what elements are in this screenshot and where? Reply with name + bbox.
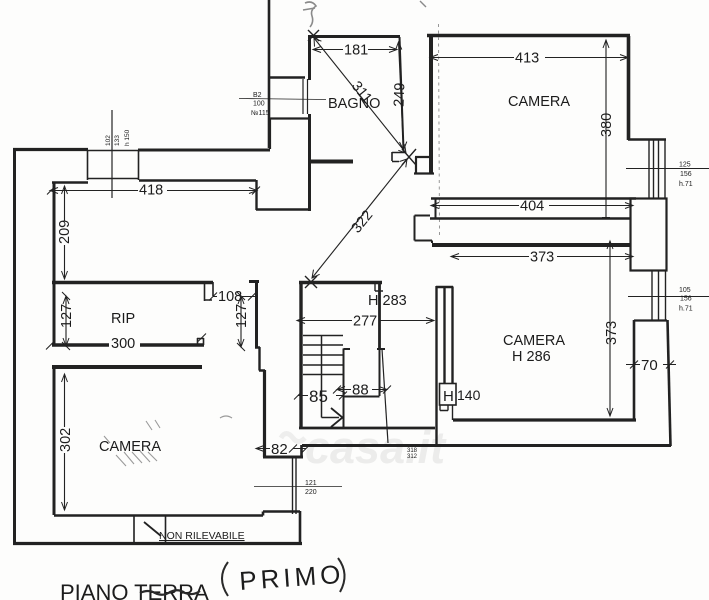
wall right lower inner [633,320,636,420]
wall 373 [432,243,630,247]
strip diagonal [144,522,161,536]
wall stair right [378,283,381,349]
svg-text:B2: B2 [253,92,262,99]
wall 404 bottom line [430,217,630,220]
svg-text:277: 277 [353,314,377,330]
svg-text:h 150: h 150 [124,129,131,146]
H140 box [440,384,457,406]
svg-text:156: 156 [680,171,692,178]
svg-text:№115: №115 [251,110,270,117]
svg-text:127: 127 [59,304,75,328]
svg-text:102: 102 [105,135,112,146]
stair center line and arrow [322,335,340,418]
svg-text:CAMERA: CAMERA [503,333,565,349]
stairwell U [344,349,386,428]
wall mid piece x256 [249,282,259,348]
jamb rip top right [204,282,213,301]
notch stair top-right [375,283,383,291]
dim 181 [313,49,397,51]
pencil mark left of 82 [220,416,232,418]
dim window 102 133 h150 [111,110,113,198]
dim 70 [626,364,676,366]
wall camera-ne right [627,36,631,140]
svg-text:127: 127 [234,304,250,328]
thin wall line right of stairwell [382,349,388,443]
window ne right [649,140,665,198]
svg-text:125: 125 [679,162,691,169]
svg-text:133: 133 [114,135,121,146]
svg-text:H 286: H 286 [512,349,551,365]
wall step to 82 [255,347,265,371]
dim 88 [337,389,387,391]
wall outer left [13,148,16,544]
svg-text:418: 418 [139,183,163,199]
wall bagno left lower [308,114,311,211]
wall stair top [299,281,382,284]
wall stair bottom [299,427,435,430]
wall camera-ne left [429,36,433,174]
svg-text:121: 121 [305,480,317,487]
wall corridor top [13,148,88,151]
wall corridor top right part [138,149,270,152]
svg-text:156: 156 [680,296,692,303]
dim 380 [605,40,607,218]
svg-text:220: 220 [305,489,317,496]
wall hook left of 404 [415,216,433,244]
wall inner vertical x54 [53,182,56,282]
svg-text:373: 373 [604,321,620,345]
pencil squiggle top [305,2,316,27]
wall bagno bottom [310,160,353,164]
dim 85 [298,395,343,397]
svg-text:209: 209 [57,220,73,244]
strip divider 1 [133,516,135,543]
wall rip top [52,281,213,284]
svg-text:312: 312 [407,454,418,460]
dim 209 [64,186,66,279]
dim 249 [399,42,404,150]
wall shaft bottom [268,76,305,79]
wall rip left [53,282,56,345]
wall stub above corridor [270,118,309,149]
dim 302 [64,374,66,510]
dim 413 [430,57,628,59]
svg-text:302: 302 [58,428,74,452]
svg-text:88: 88 [352,382,369,399]
label 121 220 [254,486,342,488]
svg-text:413: 413 [515,51,539,67]
svg-text:NON RILEVABILE: NON RILEVABILE [159,530,245,542]
wall bagno right [400,37,404,150]
svg-text:h.71: h.71 [679,181,693,188]
wall right lower top [634,319,667,321]
dim 82 [256,448,306,450]
svg-text:380: 380 [599,113,615,137]
dim 322 diagonal [312,159,407,278]
dashed guide line [439,24,440,235]
pillar camera-h286 left wall [436,286,453,444]
svg-text:105: 105 [679,287,691,294]
wall step to window ne [628,138,666,140]
sill leader ne [626,168,709,170]
svg-text:82: 82 [271,441,288,458]
svg-text:100: 100 [253,101,265,108]
wall stair left [299,282,302,429]
jamb rip bottom right [197,338,204,345]
wall 82 vertical [263,370,266,457]
wall 82 right up [300,445,303,458]
door B2 frame [303,79,308,114]
sill leader mid [628,296,709,298]
strip divider 2 [165,516,167,543]
dim 127 right [240,296,242,347]
wall bagno left upper [308,36,311,80]
wall camera-sw bottom / strip top [54,512,300,516]
H140 box step [440,405,453,420]
wall 404 left cap [435,199,437,218]
wall bagno top [308,35,400,38]
door mark X bagno top-left [308,30,319,41]
door mark X bagno-camera [402,149,416,165]
wall camera-sw top [52,365,202,369]
svg-text:140: 140 [457,387,481,403]
window right mid [652,271,666,320]
wall camera-ne left bottom step [414,157,434,174]
pipe below 82 [293,458,297,514]
door mark X stair top-left [305,276,317,288]
svg-text:H: H [443,388,454,405]
strip right edge [299,511,302,544]
dim 373 horizontal [451,256,633,258]
wall corridor bottom [256,208,310,211]
wall 404 top line [431,197,636,200]
wall camera-sw left [53,367,56,515]
label B2 100 h115 [239,99,326,100]
dim 311 diagonal [314,38,406,153]
svg-text:373: 373 [530,250,554,266]
wall outer bottom-left [13,542,302,545]
svg-text:181: 181 [344,43,368,59]
wall camera-ne top [427,34,630,38]
window 102x133 corridor [88,150,140,180]
wall camera-h286 bottom inner [453,418,636,421]
dim 418 [50,190,257,192]
dim 300 [46,334,206,350]
svg-text:h.71: h.71 [679,306,693,313]
svg-text:249: 249 [392,82,409,107]
svg-text:CAMERA: CAMERA [508,94,570,110]
svg-text:BAGNO: BAGNO [328,96,380,112]
title PRIMO handwritten [222,558,345,596]
dim 127 left [65,296,67,346]
wall block right mid [631,199,667,271]
wall corridor inner lower lip [139,179,256,181]
pencil hatch under camera sw [116,451,157,466]
svg-text:PIANO TERRA: PIANO TERRA [60,580,209,600]
svg-text:casa.it: casa.it [305,422,447,473]
svg-text:404: 404 [520,199,544,215]
wall 82 bottom [263,456,303,459]
svg-text:H 283: H 283 [368,293,407,309]
pencil mark top small [420,1,426,7]
dim 404 [431,205,633,207]
wall rip bottom [52,343,204,346]
stair treads [303,336,343,375]
svg-text:70: 70 [641,357,658,374]
wall right lower outer [668,320,671,446]
stair arrowhead [331,408,343,427]
dim 373 vertical [609,241,611,416]
dim 277 [297,320,434,322]
svg-text:RIP: RIP [111,311,135,327]
svg-text:300: 300 [111,336,135,352]
wall shaft left [268,0,271,148]
dim 108 [213,296,256,298]
wall bottom outer center-right [302,444,671,447]
wall corridor inner edge [52,181,88,184]
wall bagno right stub [392,152,405,162]
wall step x256 [255,180,257,210]
svg-text:85: 85 [309,387,328,406]
